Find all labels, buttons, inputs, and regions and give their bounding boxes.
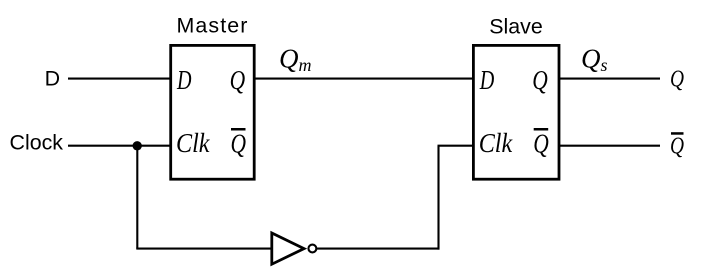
svg-text:Q: Q	[533, 128, 549, 158]
svg-text:Q: Q	[670, 66, 684, 93]
svg-text:Clock: Clock	[10, 131, 64, 155]
svg-text:Clk: Clk	[479, 128, 513, 158]
svg-text:Clk: Clk	[176, 128, 210, 158]
wire D input	[68, 78, 170, 80]
wire inverter output horizontal	[317, 248, 440, 250]
svg-text:Slave: Slave	[489, 14, 543, 38]
inverter U3 triangle	[272, 233, 304, 264]
svg-text:Q: Q	[230, 65, 246, 95]
flip-flop U1 (Master) body	[171, 45, 255, 179]
flip-flop U2 (Slave) body	[473, 45, 559, 179]
junction dot on Clock net	[133, 141, 142, 150]
inverter U3 bubble	[308, 245, 316, 253]
svg-text:Qm: Qm	[279, 43, 312, 75]
svg-text:D: D	[479, 65, 495, 95]
svg-text:Q: Q	[231, 128, 247, 158]
svg-text:Master: Master	[177, 13, 249, 37]
svg-text:Qs: Qs	[581, 43, 608, 75]
svg-text:D: D	[45, 67, 60, 91]
pin label Q-bar (U2)	[533, 128, 549, 158]
wire Q-bar output	[559, 145, 660, 147]
svg-text:Q: Q	[670, 133, 684, 160]
wire bottom horizontal to inverter	[136, 248, 271, 250]
svg-text:D: D	[176, 65, 192, 95]
output label Q-bar	[670, 132, 684, 159]
svg-text:Q: Q	[532, 65, 548, 95]
wire to Slave Clk	[438, 145, 474, 147]
net Qm wire	[255, 78, 474, 80]
wire inverter output vertical up	[437, 146, 439, 250]
wire Clock junction down (vertical)	[136, 146, 138, 249]
net Qs wire / Q output wire	[559, 78, 660, 80]
wire Clock input	[68, 145, 170, 147]
pin label Q-bar (U1)	[231, 128, 247, 158]
